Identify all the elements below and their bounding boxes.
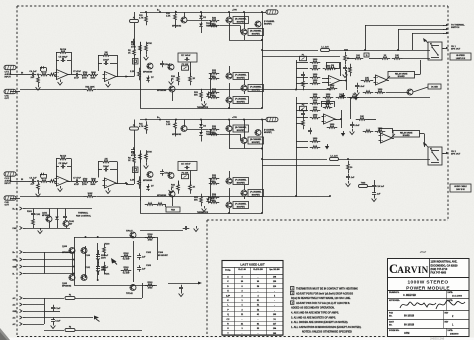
resistor R240 CH2 (310, 94, 321, 98)
capacitor C20 snubber (343, 65, 352, 72)
connector stub supply 3 (13, 265, 26, 269)
wire CH2 Q8 drain (244, 185, 246, 190)
connector stub mains 2 (13, 303, 26, 307)
wire to fuse F4 (44, 298, 64, 300)
svg-text:MOSFET): MOSFET) (264, 132, 272, 134)
fuse CH2 F (130, 125, 139, 130)
svg-text:1155 INDUSTRIAL AVE.: 1155 INDUSTRIAL AVE. (431, 261, 458, 264)
junction CH2 out (261, 158, 263, 160)
wire U3 CH2 fb cap right (67, 166, 71, 168)
fuse F4 (65, 295, 75, 300)
svg-text:K1: K1 (430, 44, 432, 46)
fuse CH1 F (130, 18, 139, 23)
resistor R243 CH2 (310, 100, 321, 104)
junction left 259 (73, 259, 75, 261)
resistor R102c (121, 253, 132, 257)
op-amp U4A (322, 114, 338, 124)
resistor CH2 R12 (145, 121, 148, 134)
svg-text:MOSFET): MOSFET) (252, 142, 260, 144)
wire CH1 V+ rail (140, 12, 262, 14)
resistor R103 CH1 (302, 78, 305, 91)
wire U1 CH1 fb cap right (67, 60, 71, 62)
MOSFET CH1 Q9 (226, 97, 249, 104)
note box hi-speed CH1 (450, 53, 471, 60)
svg-text:2: 2 (292, 293, 293, 295)
wire CH2 Q7 drain (229, 171, 231, 178)
svg-text:FAX 747 4983: FAX 747 4983 (431, 272, 447, 275)
junction v3 top (97, 236, 99, 238)
svg-text:(P-CHANNEL: (P-CHANNEL (235, 203, 247, 206)
capacitor C231 (372, 190, 381, 197)
capacitor CH2 C6 (131, 147, 135, 154)
capacitor U1 CH1 C5 feedback (59, 56, 69, 62)
wire U1 CH1 input run (20, 74, 30, 76)
junction prot CH1 (295, 89, 297, 91)
feedback loop U1 CH1 first op-amp (56, 52, 72, 75)
component U11 box CH1 (364, 53, 369, 57)
label Q100 (62, 252, 72, 254)
wire supply bus vertical (44, 252, 46, 274)
wire vert rail tap 3 (412, 33, 414, 50)
svg-text:150pF: 150pF (164, 172, 171, 174)
resistor R303 CH2 (302, 117, 305, 130)
svg-text:+70V: +70V (232, 117, 238, 119)
wire prot row2 CH2 (296, 103, 308, 105)
svg-text:C102: C102 (146, 252, 152, 254)
svg-text:NO MOUNT: NO MOUNT (158, 255, 169, 257)
svg-text:MPS8599: MPS8599 (157, 195, 167, 197)
label U1 CH1 C7 value (74, 77, 80, 80)
junction snubber CH2 (347, 158, 349, 160)
svg-text:SCHEM NO:: SCHEM NO: (389, 330, 400, 332)
svg-text:56K: 56K (194, 95, 198, 97)
wire rect v4 (133, 241, 135, 282)
notes list (291, 287, 362, 334)
wire D101 bottom (57, 222, 59, 229)
label CH1 (211, 93, 215, 95)
wire CH1 bank1 out (229, 40, 262, 42)
row approved with signature (389, 299, 465, 309)
op-amp U4B (379, 133, 395, 143)
svg-text:R102: R102 (124, 253, 130, 255)
arrow thermal switch 1 (443, 24, 449, 27)
connector F3 (266, 10, 278, 14)
junction CH2 rail x146 (145, 119, 147, 121)
connector stub fan (13, 226, 26, 230)
wire U2B out (386, 76, 390, 80)
resistor U3 CH2 R9 feedback (102, 159, 110, 163)
svg-text:TIP142: TIP142 (126, 292, 134, 295)
wire CH1 Q6 down (172, 92, 174, 101)
transistor CH1 Q6 MPS8599 (157, 86, 175, 92)
connector stub mains 5 (13, 322, 26, 326)
label CH2 feed a (128, 158, 132, 160)
wire U1 CH1 input (10, 74, 20, 76)
diode D101 (55, 215, 59, 222)
label R101f (27, 211, 33, 213)
label CH1 (206, 23, 211, 25)
wire CH2 P1 to R18 (178, 181, 180, 185)
resistor R115 CH1 (310, 80, 321, 84)
ground C105 (179, 291, 184, 297)
junction CH1 rail x201 (200, 11, 202, 13)
label CH2 (171, 185, 176, 187)
junction v2 top (85, 236, 87, 238)
wire CH1 F bottom (134, 23, 136, 28)
svg-text:(P-CHANNEL: (P-CHANNEL (235, 98, 247, 101)
wire CH2 left bus (140, 151, 142, 201)
resistor CH2 R14b (145, 150, 148, 163)
svg-text:DATE:: DATE: (448, 291, 454, 294)
svg-text:MPS8092: MPS8092 (62, 252, 72, 254)
wire U1 CH1 A out (67, 74, 74, 76)
resistor R102 CH1 (310, 66, 321, 70)
capacitor U3 CH2 C4 (29, 176, 37, 183)
wire bus to rect 2 (44, 259, 74, 261)
junction CH2 rail x160 (159, 119, 161, 121)
MOSFET CH2 Q9 (226, 202, 249, 209)
ground snubber CH1 (343, 72, 348, 78)
resistor U1 CH1 R8 (89, 72, 98, 76)
svg-text:NO.: NO. (389, 324, 393, 326)
svg-text:47uF: 47uF (74, 183, 80, 186)
wire U3 CH2 input (10, 181, 20, 183)
svg-text:10K: 10K (395, 55, 399, 57)
wire supply stub 3 (26, 266, 45, 268)
corner smudge bottom left (0, 328, 10, 340)
svg-text:MPS8092: MPS8092 (172, 134, 182, 136)
label CH2 (264, 129, 275, 132)
wire CH1 Q7-Q9 (229, 83, 231, 97)
capacitor C105 (179, 285, 183, 292)
label CH1 feed a (128, 50, 132, 52)
svg-text:FAN: FAN (13, 227, 18, 230)
junction prot CH2 (295, 195, 297, 197)
wire CH1 Q4 drain (229, 12, 231, 17)
capacitor C222 CH2 (301, 111, 305, 118)
label fan control a (78, 211, 89, 214)
resistor CH2 R20 (209, 126, 220, 130)
diode CH1 D7 (146, 76, 150, 83)
label CH1 (206, 26, 218, 28)
wire U1 CH1 B out to driver (115, 76, 128, 78)
svg-text:NOTES: UNLESS OTHERWISE SP: NOTES: UNLESS OTHERWISE SPECIFIED (302, 331, 352, 334)
label CH1 (264, 20, 275, 23)
wire rect bottom rail (74, 285, 157, 287)
wire U1 CH1 fb cap left (56, 60, 59, 62)
capacitor U1 CH1 C4 (29, 70, 37, 77)
wire prot row CH1 (369, 58, 380, 60)
transistor Q101 MPS8092 (42, 213, 52, 223)
connector stub supply 1 (13, 250, 26, 254)
wire prot in1 CH2 (296, 117, 308, 119)
resistor R230 snubber (347, 161, 354, 174)
label TH01 (69, 221, 74, 223)
label CH1 D7 (151, 77, 155, 79)
svg-text:MPS8599: MPS8599 (157, 90, 167, 92)
wire CH2 driver to ladder (187, 129, 209, 131)
zener CH1 D2 (199, 14, 207, 21)
svg-text:1M: 1M (326, 104, 329, 106)
wire CH2 TH down (201, 137, 203, 142)
arrow supply out (198, 282, 202, 285)
svg-text:C17 .047uF: C17 .047uF (181, 163, 191, 166)
wire right rail down (157, 237, 159, 260)
wire supply stub 4 (26, 273, 45, 275)
trimmer P4 CH2 (300, 105, 307, 111)
capacitor CH1 C6 (131, 39, 135, 46)
resistor R100c (103, 244, 106, 257)
svg-text:C5 180pF: C5 180pF (59, 56, 69, 58)
svg-text:BOARD: BOARD (403, 134, 411, 137)
svg-text:AUDIO CABLE: AUDIO CABLE (454, 185, 467, 188)
wire prot in1 CH1 (296, 77, 308, 79)
connector stub mains 1 (13, 296, 26, 300)
wire box to relay v (420, 60, 422, 75)
resistor CH1 R25 (209, 70, 220, 74)
svg-text:C101: C101 (85, 267, 91, 269)
node label U3 CH2 (21, 179, 24, 181)
transistor CH2 Q10 (255, 130, 262, 136)
row drawn by (389, 291, 463, 297)
wire Q102 bottom (66, 227, 68, 229)
svg-text:11: 11 (366, 55, 368, 57)
wire CH2 output feedback run (20, 196, 84, 198)
label right b (158, 255, 169, 257)
wire U1 CH1 fb2 right (110, 63, 117, 65)
parallel loop U3 CH2 R4 (40, 173, 47, 178)
wire CH2 R15 down (175, 132, 177, 137)
label CH2 (193, 187, 196, 189)
svg-text:R4 1K: R4 1K (41, 177, 47, 180)
resistor R224 feedback (84, 193, 97, 197)
resistor CH2 R25 (209, 175, 220, 179)
junction v4 top (132, 236, 134, 238)
svg-text:MPS8599: MPS8599 (143, 180, 153, 182)
label U1 CH1 R8 value (91, 78, 96, 80)
op-amp U3 CH2 B (103, 178, 119, 188)
wire prot v CH2 (350, 97, 352, 119)
wire CH2 Q5 source (244, 144, 246, 149)
wire U3 CH2 fb2 right (110, 169, 117, 171)
wire prot row right CH1 (402, 58, 430, 60)
wire to fuse F5 (44, 330, 64, 332)
svg-text:Desig.: Desig. (225, 269, 231, 271)
wire CH1 to Q5 gate (220, 25, 241, 27)
diode D100 blob (111, 258, 117, 265)
junction U3 CH2 input (37, 180, 39, 182)
resistor R111 CH1 (361, 78, 374, 82)
wire CH1 input join (126, 76, 134, 78)
junction U1 CH1 input (37, 74, 39, 76)
resistor CH1 R14 (139, 42, 142, 55)
junction CH1 rail x244 (243, 11, 245, 13)
junction CH1 rail x229 (228, 11, 230, 13)
wire to F4b (262, 119, 266, 121)
diode CH1 D3 (206, 92, 210, 99)
ground U1 CH1 op-amp B (106, 82, 111, 88)
wire CH1 Q7 drain (229, 66, 231, 73)
wire U4A in1 (322, 116, 324, 118)
ground C24 CH1 (355, 90, 360, 96)
svg-text:1000W STEREO: 1000W STEREO (407, 279, 448, 285)
wire CH1 lower rail (172, 108, 262, 110)
wire L1 to relay K1 (330, 50, 431, 52)
label CH2 (166, 122, 171, 124)
wire K1 out (442, 48, 444, 50)
resistor R140 (145, 203, 156, 206)
wire CH2 to Q5 gate (220, 134, 241, 136)
wire CH1 Q5 gate v (240, 26, 242, 33)
wire mains bus vertical (44, 298, 46, 324)
resistor U1 CH1 R7 (81, 72, 90, 76)
label CH2 (194, 200, 198, 202)
capacitor C103c (137, 265, 146, 272)
wire supply stub 2 (26, 259, 45, 261)
svg-text:MPS8599: MPS8599 (143, 72, 153, 74)
svg-text:OUT: OUT (5, 205, 10, 207)
label U3 CH2 R7 value (82, 184, 87, 186)
capacitor U3 CH2 C8 feedback (103, 166, 110, 172)
svg-text:4.7K: 4.7K (139, 125, 144, 128)
resistor CH1 feed (133, 49, 136, 56)
MOSFET CH1 Q4 (226, 17, 249, 24)
trimmer CH1 P1 (182, 64, 189, 70)
resistor CH1 R26 (209, 77, 220, 80)
svg-text:MOSFET): MOSFET) (252, 89, 260, 91)
label fan control b (76, 214, 92, 217)
svg-text:MPS8092: MPS8092 (62, 286, 72, 288)
svg-text:FAN: FAN (171, 209, 175, 212)
wire CH1 left bus low (140, 92, 142, 108)
capacitor C24 CH1 (355, 83, 365, 90)
resistor U1 CH1 R4 (39, 71, 49, 76)
box DC sense CH1 (428, 84, 441, 89)
label spk CH2a (451, 151, 457, 153)
label spk CH1a (451, 46, 457, 48)
label U3 CH2 C4 value (30, 184, 35, 186)
svg-text:(P-CHANNEL: (P-CHANNEL (264, 20, 275, 23)
svg-text:GND: GND (13, 311, 18, 313)
capacitor U1 CH1 C8 feedback (103, 59, 110, 65)
wire U2A out v (346, 70, 348, 90)
wire F4 join up (142, 283, 144, 298)
relay driver box CH1 (388, 72, 415, 79)
wire CH1 Q5 source (244, 35, 246, 40)
wire CH2 gate ladder lower (210, 178, 212, 202)
label CH1 (193, 78, 196, 80)
label CH2 (210, 181, 215, 183)
transistor Q108 TIP147 (126, 230, 136, 239)
resistor R244 CH2 (323, 100, 334, 104)
resistor CH1 R12 (145, 13, 148, 26)
wire C102f top (33, 209, 35, 212)
svg-text:10K: 10K (360, 116, 364, 118)
trimmer CH2 P1 (182, 173, 189, 179)
svg-text:BOARD: BOARD (398, 75, 406, 78)
label CH2 (264, 132, 272, 134)
resistor R302 CH2 (310, 115, 321, 119)
fuse F5 (65, 327, 75, 332)
wire R130 bottom (33, 227, 35, 229)
connector stub mains 4 (13, 316, 26, 320)
resistor CH2 R22 (200, 194, 203, 207)
connector stub mains 3 (13, 309, 26, 313)
svg-text:(P-CHANNEL: (P-CHANNEL (235, 179, 247, 182)
svg-text:(P-CHANNEL: (P-CHANNEL (264, 129, 275, 132)
junction CH2 rail x201 (200, 119, 202, 121)
svg-text:R100: R100 (148, 234, 154, 236)
svg-text:K1: K1 (430, 149, 432, 151)
ground CH2 middle (169, 188, 174, 194)
wire prot row1 CH1 (296, 62, 308, 64)
wire prot in2 CH2 (296, 123, 303, 125)
svg-text:THERMISTOR MUST BE IN CONTACT: THERMISTOR MUST BE IN CONTACT WITH HEATS… (296, 288, 358, 291)
resistor CH1 R14b (145, 42, 148, 55)
wire bus to rect 1 (44, 252, 74, 254)
label CH2 (210, 132, 215, 134)
wire CH1 output bus vertical (262, 12, 264, 108)
svg-text:1.5K: 1.5K (166, 124, 171, 126)
transistor Q102b MPS8092 (62, 275, 75, 286)
label CH1 feed b (128, 53, 131, 55)
resistor CH1 R20 (209, 18, 220, 22)
svg-text:INPUT: INPUT (5, 77, 12, 79)
label CH2 val (139, 125, 144, 128)
inductor L2 (330, 156, 339, 161)
connector CH2 output (4, 196, 16, 207)
wire CH1 zener top (201, 12, 203, 14)
junction CH1 out (261, 49, 263, 51)
label CH2 (206, 132, 211, 134)
feedback loop U3 CH2 second op-amp (98, 162, 118, 184)
svg-text:INPUT: INPUT (5, 183, 12, 185)
wire CH2 low rail left (140, 213, 172, 215)
wire L2 to relay K2 (339, 159, 431, 161)
wire prot in4 CH2 (296, 147, 308, 149)
resistor CH2 R18 (177, 181, 180, 194)
label CH2 (210, 200, 215, 202)
svg-text:Sys. 101-200: Sys. 101-200 (269, 269, 279, 271)
inductor L1 (321, 47, 330, 52)
resistor CH1 R21 (209, 24, 220, 27)
transistor CH1 Q11 (168, 64, 175, 70)
label CH2 (130, 180, 135, 182)
wire rect top rail (74, 237, 157, 239)
pen mark above title block (420, 252, 426, 253)
svg-text:150pF: 150pF (164, 64, 171, 66)
svg-text:MPS8092: MPS8092 (172, 26, 182, 28)
wire U4A in2 (322, 121, 324, 123)
transistor CH2 Q11 (168, 173, 175, 179)
label CH2 val (131, 154, 136, 157)
ground U3 CH2 op-amp B (106, 188, 111, 194)
relay driver box CH2 (393, 131, 420, 138)
resistor R241 CH2 (323, 94, 334, 98)
svg-text:3.3uF: 3.3uF (359, 86, 365, 88)
junction CH2 lower out (261, 212, 263, 214)
svg-text:MOSFET): MOSFET) (237, 130, 245, 132)
wire mains stub 5 (26, 324, 45, 326)
resistor U1 CH1 R5 (37, 75, 40, 85)
wire CH1 left bus (140, 42, 142, 92)
wire CH1 P1 to R18 (178, 72, 180, 76)
svg-text:C. MEEVER: C. MEEVER (403, 294, 416, 297)
svg-text:MOSFET): MOSFET) (237, 77, 245, 79)
wire prot in2 CH1 (296, 83, 308, 85)
wire rect v2 (85, 246, 87, 277)
resistor CH1 R27 (209, 88, 220, 93)
